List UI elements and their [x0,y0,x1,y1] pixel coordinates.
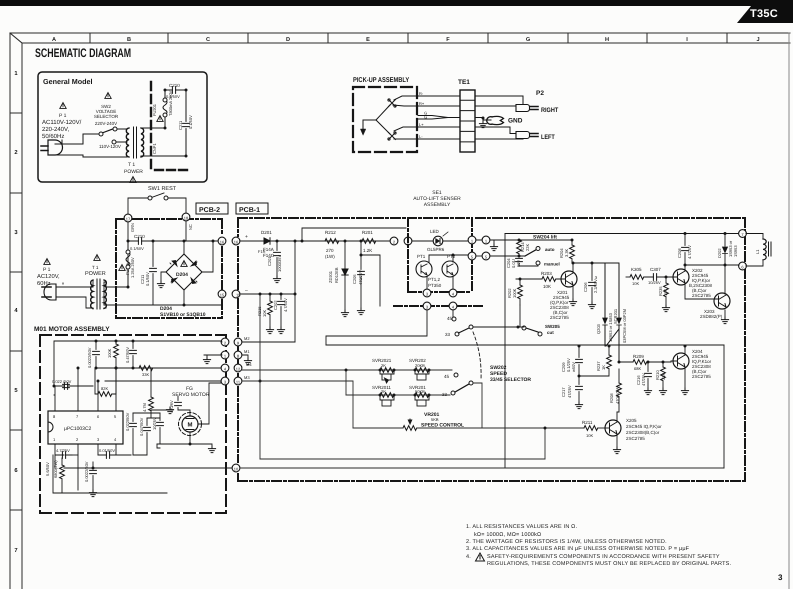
wire pins1/5 [476,240,525,256]
svg-text:10K: 10K [586,433,593,438]
svg-text:10/25V: 10/25V [152,417,157,430]
bridge wires [104,241,222,305]
transformer T1 secondary coil [141,128,144,157]
svg-text:C206: C206 [583,282,588,292]
pin 18 [182,213,190,221]
svg-text:1.25A 250V: 1.25A 250V [130,257,135,278]
svg-text:PCB-1: PCB-1 [239,207,260,214]
svg-text:ZD201: ZD201 [328,270,333,283]
svg-text:SELECTOR: SELECTOR [94,114,119,119]
svg-text:R203: R203 [541,271,552,276]
FU201 fuse [157,116,163,122]
svg-text:R+: R+ [419,101,425,106]
CNP1 dashed PCB edge [150,82,152,168]
ground on G wire [479,121,486,128]
svg-text:2SC2785: 2SC2785 [692,374,711,379]
pin 16 (PCB-2 side) [218,237,226,245]
svg-text:L+: L+ [419,122,424,127]
svg-text:C217: C217 [561,387,566,397]
General Model box frame [38,72,207,182]
svg-text:C201: C201 [267,256,272,266]
svg-text:0.022/50V: 0.022/50V [125,412,130,431]
svg-text:–: – [245,288,248,294]
svg-text:μPC1003C2: μPC1003C2 [64,426,92,432]
PCB-1 dash-dot border [238,218,745,481]
SW2 voltage selector label [94,104,119,126]
svg-text:4: 4 [14,308,18,314]
wire pin3 down and left [326,310,427,345]
pins 3 4 on main board [423,302,431,310]
svg-text:R201: R201 [362,230,373,235]
stylus arrow [360,129,365,135]
svg-text:M: M [188,422,193,429]
svg-text:220V-240V: 220V-240V [95,121,117,126]
ground pin8 [242,355,248,358]
svg-text:RD12EB: RD12EB [334,267,339,283]
long rail y468 pin10 [240,467,724,469]
svg-text:1000/35V: 1000/35V [277,255,282,272]
svg-text:FU201: FU201 [152,103,157,116]
svg-text:F14A: F14A [263,247,274,252]
svg-text:3.3K: 3.3K [564,248,569,257]
svg-text:D204: D204 [176,272,188,278]
X202 label [689,268,713,298]
svg-text:kΩ= 1000Ω, MΩ= 1000kΩ: kΩ= 1000Ω, MΩ= 1000kΩ [474,532,541,538]
SW202 label [490,365,531,383]
svg-text:0.0022/50V: 0.0022/50V [87,347,92,368]
svg-text:LEFT: LEFT [541,134,555,141]
SW1 switch loop [128,193,186,214]
svg-text:50/60Hz: 50/60Hz [42,133,64,140]
svg-text:C205: C205 [352,274,357,284]
svg-text:470/25V: 470/25V [358,270,363,285]
svg-text:M1: M1 [244,349,250,354]
pin 15 (PCB-2 side) [218,290,226,298]
branch wire to lower boundary [361,255,380,306]
wires caps column [133,413,160,455]
svg-text:15: 15 [220,293,225,298]
svg-text:C: C [206,37,210,43]
second dashed boundary below SE1 [394,305,485,307]
svg-text:R209: R209 [633,354,644,359]
GND spade lug [487,116,504,124]
svg-text:10K: 10K [543,284,551,289]
svg-text:R211: R211 [582,420,593,425]
X205 transistor [605,420,621,436]
svg-text:0.01/50V: 0.01/50V [99,448,115,453]
row cell ticks [10,113,22,510]
svg-text:T 1: T 1 [92,265,99,270]
svg-text:1: 1 [14,71,18,77]
svg-text:5.6/50V: 5.6/50V [45,462,50,476]
svg-text:220-240V,: 220-240V, [42,126,69,133]
svg-text:10: 10 [234,467,239,472]
svg-text:C210: C210 [134,234,145,239]
svg-text:0.47/50V: 0.47/50V [125,347,130,363]
svg-text:T800mA 250V: T800mA 250V [168,90,173,116]
PCB-2 dash-dot border [116,219,222,318]
wire down to lower rail [259,294,261,459]
wire pin15 node down to pin9 row [294,241,296,342]
M01 dashed border [40,335,226,513]
svg-text:PICK-UP ASSEMBLY: PICK-UP ASSEMBLY [353,77,410,84]
wire pin11 to speed control [242,381,353,428]
svg-text:18: 18 [184,216,189,221]
svg-text:1. ALL RESISTANCES VALUES ARE: 1. ALL RESISTANCES VALUES ARE IN Ω. [466,524,577,530]
wire labels R- R+ G G L+ L- [419,91,427,139]
VR201 pot [403,426,417,431]
PCB-1 label box [236,203,268,214]
wires pickup to TE1 [418,96,460,139]
svg-text:D: D [286,37,290,43]
svg-text:47/25V: 47/25V [641,373,646,386]
top black bar [0,0,793,6]
svg-text:PT350: PT350 [428,283,442,288]
rail y459 [260,458,545,460]
svg-text:R-: R- [419,91,424,96]
PT wires [427,255,470,293]
column letters A-J [52,37,760,43]
svg-text:T35C: T35C [750,8,778,20]
PCB-2 label box [196,203,228,214]
wire pin6 to X203 collector [685,264,739,266]
wire selector to SW205 [473,326,524,328]
svg-text:10K: 10K [262,310,267,317]
svg-text:3. ALL CAPACITANCES VALUES AR: 3. ALL CAPACITANCES VALUES ARE IN μF UNL… [466,546,690,552]
ground stub at pin1 [493,240,495,244]
svg-text:22K: 22K [525,244,530,251]
svg-text:SERVO MOTOR: SERVO MOTOR [172,392,210,398]
svg-text:AC120V,: AC120V, [37,273,60,280]
warning P1 lower [44,259,50,265]
svg-text:0.022 /50V: 0.022 /50V [52,379,72,384]
svg-text:E: E [366,37,370,43]
svg-text:0.1/50V: 0.1/50V [130,246,144,251]
motor box top rail [54,341,221,386]
SVR202 trimmer loop [415,370,429,380]
svg-text:2SC2785: 2SC2785 [626,436,645,441]
RIGHT rca plug [516,105,538,112]
svg-text:3: 3 [778,573,783,582]
svg-text:SW205: SW205 [545,324,560,329]
pins 1 1 right of SE1 [468,236,476,244]
column letter ticks [90,33,727,43]
IC pin numbers [53,414,117,442]
svg-text:GND: GND [508,118,523,125]
svg-text:60Hz: 60Hz [37,280,51,287]
svg-text:K305: K305 [631,267,642,272]
svg-text:+: + [245,234,248,240]
svg-text:03PC5M or 03P2M: 03PC5M or 03P2M [622,309,627,343]
svg-text:SCR201: SCR201 [613,308,618,324]
svg-text:2: 2 [14,149,17,156]
svg-text:1.2K: 1.2K [363,248,372,253]
svg-text:LED: LED [430,229,440,234]
svg-text:D201: D201 [261,230,272,235]
thin feedback rect right [723,345,725,468]
svg-text:T 1: T 1 [128,162,135,168]
bridge diodes [170,261,197,284]
svg-text:cut: cut [547,330,554,335]
svg-text:REGULATIONS, THESE COMPONENTS: REGULATIONS, THESE COMPONENTS MUST ONLY … [487,561,731,567]
svg-text:(1W): (1W) [325,254,335,259]
svg-text:16: 16 [234,240,239,245]
SE1 dash-dot box [408,218,472,292]
svg-text:2SC2785: 2SC2785 [692,293,711,298]
plug P1 lower [42,284,56,300]
SCR201 03PC5M [606,264,621,362]
svg-text:17: 17 [126,217,131,222]
svg-text:TE1: TE1 [458,79,470,86]
svg-text:2SC2308(B,C)or: 2SC2308(B,C)or [626,430,660,435]
selector arm lower [455,384,469,392]
svg-text:PT1: PT1 [417,254,426,259]
svg-text:7: 7 [14,548,17,554]
svg-text:P 1: P 1 [43,267,51,273]
svg-text:5: 5 [114,414,117,419]
svg-text:82K: 82K [101,386,108,391]
svg-text:5: 5 [14,388,18,394]
svg-text:SW1 REST: SW1 REST [148,186,177,192]
svg-text:CNP1: CNP1 [152,143,157,154]
X201 label [550,290,570,320]
warning triangle note 4 [476,553,485,561]
svg-text:R210: R210 [655,370,660,380]
junction dots rail y241 [301,240,304,243]
secondary wires across CNP1 [141,128,186,156]
svg-text:auto: auto [545,247,555,252]
svg-text:2. THE WATTAGE OF RESISTORS I: 2. THE WATTAGE OF RESISTORS IS 1/4W, UNL… [466,539,667,545]
grounds bottom of motor box [89,490,96,497]
svg-text:7: 7 [76,414,79,419]
svg-text:2SC2785: 2SC2785 [550,315,569,320]
svg-text:P 1: P 1 [59,113,67,119]
svg-text:X205: X205 [626,418,637,423]
svg-text:110V-120V: 110V-120V [99,144,121,149]
svg-text:w50V: w50V [571,362,576,372]
svg-text:AC110V-120V/: AC110V-120V/ [42,119,82,126]
rail y370 from pin12 [242,369,452,371]
junction dots [164,89,167,92]
svg-text:4.7M: 4.7M [142,403,147,412]
svg-text:0.047/50V: 0.047/50V [139,417,144,436]
pins 5 5 right of SE1 [468,252,476,260]
svg-text:F: F [446,37,450,43]
wires TE1 to P2 [475,96,523,139]
POWER label lower [94,255,100,261]
pins 2 2 (SE1 left) [390,237,398,245]
signal wire from pin1 [490,239,572,241]
X201 transistor [561,271,577,287]
svg-text:NC: NC [188,224,193,230]
svg-text:M3: M3 [244,375,250,380]
ground motor [208,446,215,453]
speed wire to R211 [353,427,584,429]
svg-text:20KB: 20KB [415,363,425,368]
cartridge common node [363,120,376,129]
pins 3 4 on SE1 bottom [423,289,431,297]
svg-text:J: J [756,37,759,43]
pin column pcb1 side: 9,8,12,11,10 [234,338,242,346]
svg-text:RIGHT: RIGHT [541,107,558,114]
wires plug to SW2 [55,134,127,157]
svg-text:4.: 4. [466,554,471,560]
svg-text:12: 12 [236,367,241,372]
svg-text:1S953: 1S953 [733,245,738,257]
svg-text:L1: L1 [755,249,760,254]
pickup dashed box [353,87,417,152]
svg-text:I: I [686,37,688,43]
svg-text:270: 270 [326,248,334,253]
X202 transistor [673,269,689,285]
svg-text:ASSEMBLY: ASSEMBLY [424,202,451,208]
secondary wires into PCB-2 [104,221,186,305]
SW2 switch arm [102,129,114,134]
wire pin9 to node [242,341,295,343]
svg-text:R212: R212 [325,230,336,235]
svg-text:S1VB10 or S1QB10: S1VB10 or S1QB10 [160,312,206,318]
svg-text:15: 15 [236,293,241,298]
svg-text:POWER: POWER [124,169,143,175]
diode Q203 (1S953 or 1S853) [603,263,608,346]
svg-text:16: 16 [220,240,225,245]
vertical to lower rail [345,370,347,395]
svg-text:68K: 68K [634,366,641,371]
rail y395 [346,394,450,396]
svg-text:8: 8 [53,414,56,419]
svg-text:M2: M2 [244,336,250,341]
LEFT rca plug [516,132,538,139]
row numbers 1-7 [14,71,18,554]
motor M [179,413,202,436]
svg-text:G: G [424,115,427,120]
motor wires [151,381,221,448]
svg-text:45: 45 [444,374,450,379]
svg-text:6800(2W): 6800(2W) [53,460,58,478]
X203 transistor [714,293,730,309]
transformer T1 primary coil [126,128,129,157]
transformer T1 lower [91,279,107,309]
svg-text:C211: C211 [178,120,183,130]
svg-text:PT1,2: PT1,2 [428,277,441,282]
svg-text:4: 4 [114,437,117,442]
svg-text:1K: 1K [601,365,606,370]
wire from lower pivot down to speed wire [473,383,482,428]
svg-text:0.0022/50V: 0.0022/50V [84,461,89,482]
svg-text:33: 33 [442,392,448,397]
svg-text:10K: 10K [632,281,639,286]
svg-text:GRN: GRN [130,223,135,232]
label AC110V-120V [42,119,82,140]
svg-text:C307: C307 [650,267,661,272]
svg-text:10/25V: 10/25V [648,280,661,285]
IC top pin stubs [54,368,116,411]
svg-text:0.1/50V: 0.1/50V [145,272,150,286]
thin box left edge [504,234,506,469]
svg-text:SW204 lift: SW204 lift [533,235,557,241]
svg-text:M01 MOTOR ASSEMBLY: M01 MOTOR ASSEMBLY [34,326,110,333]
pin 15 pcb1 [232,290,240,298]
svg-text:SAFETY-REQUIREMENTS COMPONENT: SAFETY-REQUIREMENTS COMPONENTS IN ACCORD… [487,554,720,560]
svg-text:1: 1 [53,437,56,442]
SVR2021 trimmer loop [380,370,394,383]
svg-text:G: G [526,37,530,43]
svg-text:C210: C210 [169,83,180,88]
svg-text:6: 6 [14,467,18,474]
pin 16 pcb1 [232,237,240,245]
SVR201 trimmer loop [415,395,429,406]
svg-text:33/45 SELECTOR: 33/45 SELECTOR [490,377,531,383]
pin column M01 side: 2,1,4,3,10 [221,338,229,346]
right ch generator [376,105,390,120]
main rail y241 [240,240,394,242]
svg-text:3: 3 [14,229,18,236]
svg-text:B: B [127,37,131,43]
svg-text:100K: 100K [107,348,112,358]
rail y345 [326,344,724,346]
X204 label [692,349,712,379]
pin 7 [739,230,747,238]
sub rail pin15 [240,293,295,295]
svg-text:PCB-2: PCB-2 [199,207,220,214]
svg-text:47/25V: 47/25V [567,385,572,398]
svg-text:5KB: 5KB [431,417,439,422]
plug P1 [41,140,63,155]
svg-text:33: 33 [445,332,451,337]
svg-text:D202: D202 [717,248,722,258]
vertical x545 up to speed wire [544,428,546,459]
left ch generator [376,120,390,134]
T35C black corner wedge [737,0,793,23]
svg-text:4.7/25V: 4.7/25V [56,448,70,453]
svg-text:2: 2 [76,437,79,442]
svg-text:GL5PR6: GL5PR6 [427,247,445,252]
IC uPC1003C2 [48,411,123,444]
ground C211 [163,269,168,271]
wire PT emitters row y256 [426,260,428,262]
svg-text:L-: L- [419,134,423,139]
svg-text:A: A [52,37,56,43]
pin wire tags M2 M1 M4 M3 [244,336,252,380]
pin 17 [124,214,132,222]
svg-text:2.2/50Vω: 2.2/50Vω [593,276,598,293]
ground at bridge left vertex [157,281,164,288]
svg-text:Q203: Q203 [596,323,601,334]
svg-text:H: H [605,37,609,43]
X204 transistor [673,353,689,369]
svg-text:2SD882(P): 2SD882(P) [700,314,723,319]
svg-text:6: 6 [97,414,100,419]
AC120V 60Hz label [37,273,60,287]
svg-text:General Model: General Model [43,77,93,86]
wires plug to T1 [56,280,93,309]
svg-text:470/6V: 470/6V [169,400,174,413]
rail rows to pins [95,355,221,381]
svg-text:P2: P2 [536,90,544,97]
svg-text:2SC945 IQ,P,K)or: 2SC945 IQ,P,K)or [626,424,662,429]
svg-text:POWER: POWER [85,271,106,277]
SW204 contacts auto/manuel [525,250,537,257]
svg-text:33K: 33K [142,372,149,377]
svg-text:100K: 100K [512,288,517,298]
SW205 cut [522,326,526,330]
svg-text:manuel: manuel [544,262,560,267]
warning P1 [60,103,66,109]
selector arm upper [459,328,471,334]
wire 220V contact to T1 [117,128,127,130]
+B thin rail / box top [505,233,739,235]
transformer T1 core [134,127,137,158]
